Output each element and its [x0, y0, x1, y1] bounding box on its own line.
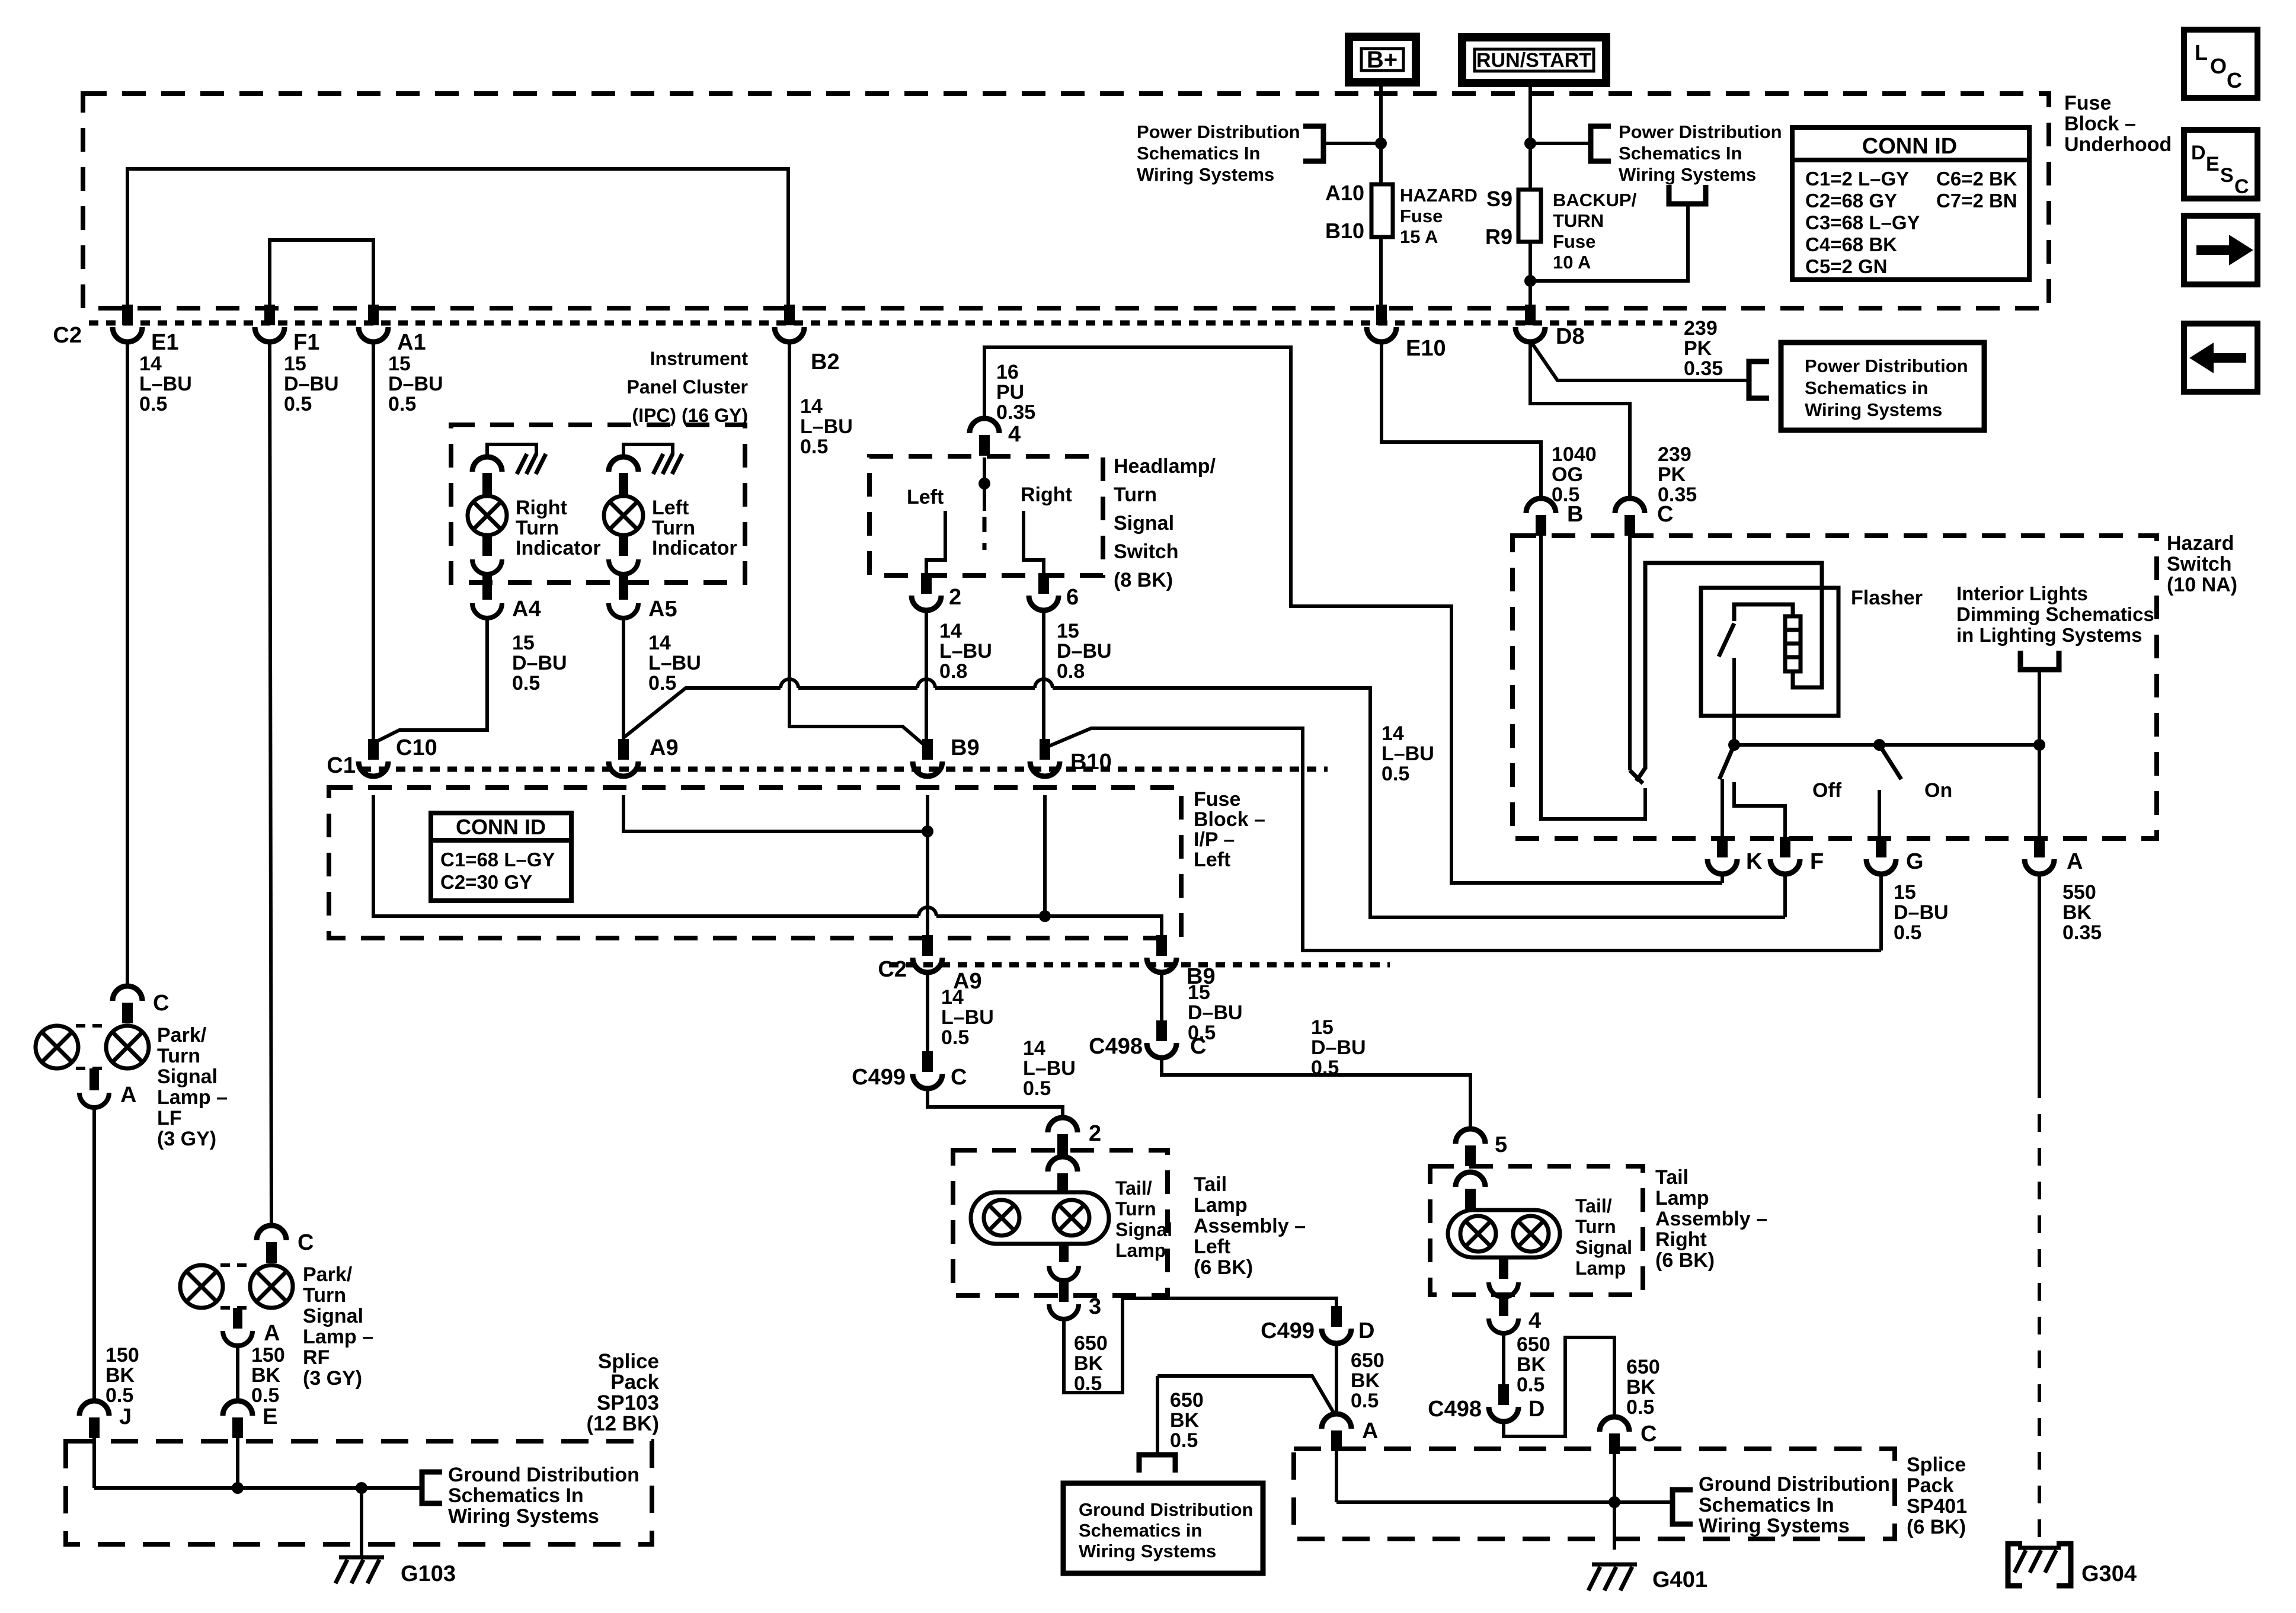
svg-text:Left: Left	[907, 486, 944, 508]
headlamp/turn signal switch dashed box	[869, 456, 1103, 575]
LOC box	[2184, 30, 2257, 98]
svg-text:Signal: Signal	[303, 1305, 363, 1327]
node headlamp switch pole	[983, 457, 986, 484]
svg-text:CONN ID: CONN ID	[456, 815, 546, 839]
svg-text:C1=68 L–GY: C1=68 L–GY	[440, 849, 555, 870]
svg-text:Block –: Block –	[1194, 808, 1265, 831]
right indicator lower connector	[482, 535, 492, 556]
wire B10 to G diagonal (15 D-BU)	[1045, 728, 1881, 950]
svg-text:150: 150	[105, 1344, 139, 1366]
svg-text:B10: B10	[1070, 750, 1112, 775]
wire E1 to B2 internal	[127, 169, 788, 305]
svg-text:Ground Distribution: Ground Distribution	[1699, 1473, 1890, 1496]
svg-text:BK: BK	[1074, 1352, 1104, 1375]
connector E10	[1376, 305, 1387, 325]
svg-text:Schematics in: Schematics in	[1805, 377, 1928, 398]
svg-text:C7=2 BN: C7=2 BN	[1936, 190, 2017, 212]
connector 2 headlamp switch	[921, 573, 932, 594]
svg-text:Schematics In: Schematics In	[1619, 143, 1742, 164]
svg-text:0.5: 0.5	[648, 672, 676, 695]
svg-text:Tail/: Tail/	[1575, 1195, 1612, 1217]
svg-text:C498: C498	[1428, 1397, 1482, 1422]
wire E10 to hazard switch B	[1382, 340, 1541, 500]
connector E1	[122, 305, 133, 325]
connector A5	[619, 575, 628, 600]
svg-text:Splice: Splice	[1907, 1454, 1966, 1476]
svg-text:D–BU: D–BU	[1894, 901, 1949, 924]
svg-text:C1: C1	[327, 753, 356, 778]
svg-text:L–BU: L–BU	[800, 415, 853, 438]
splice pack SP401 dashed box	[1294, 1449, 1895, 1539]
wire B9 bottom to C498	[1160, 971, 1163, 1023]
wire switch 6 to B10	[1042, 609, 1045, 742]
svg-text:(8 BK): (8 BK)	[1114, 569, 1173, 591]
wire C into SP401 to G401	[1613, 1454, 1616, 1550]
ground G304	[2018, 1546, 2061, 1550]
node flasher pole	[1728, 739, 1740, 751]
svg-text:Signal: Signal	[157, 1065, 218, 1088]
hazard blade to K	[1719, 745, 1734, 779]
Off contact wire to F	[1734, 782, 1785, 837]
wire C10 to lower B9 internal	[373, 795, 919, 916]
connector F	[1780, 837, 1790, 857]
svg-text:BK: BK	[105, 1364, 135, 1387]
svg-text:15: 15	[1311, 1016, 1334, 1039]
svg-text:PK: PK	[1684, 337, 1712, 360]
svg-text:Turn: Turn	[1114, 484, 1157, 506]
svg-text:BK: BK	[251, 1364, 281, 1387]
B+ feed box	[1349, 37, 1416, 82]
svg-text:A: A	[2067, 849, 2083, 874]
svg-text:0.35: 0.35	[996, 401, 1035, 424]
bracket under power distribution text	[1669, 185, 1706, 204]
svg-text:10 A: 10 A	[1553, 252, 1591, 273]
svg-text:Switch: Switch	[2167, 553, 2232, 575]
wire BACKUP fuse to connector D8	[1528, 242, 1532, 305]
svg-text:239: 239	[1684, 317, 1718, 340]
left turn indicator lamp	[609, 457, 638, 472]
svg-text:650: 650	[1351, 1349, 1384, 1372]
svg-text:C: C	[1190, 1034, 1206, 1059]
power distribution schematics box (solid)	[1781, 343, 1984, 430]
svg-text:550: 550	[2062, 881, 2096, 904]
svg-text:L–BU: L–BU	[648, 652, 701, 674]
svg-text:0.35: 0.35	[1684, 357, 1723, 380]
node G103 junction	[356, 1482, 367, 1494]
svg-text:S9: S9	[1486, 187, 1512, 211]
svg-text:0.8: 0.8	[939, 660, 967, 683]
svg-text:15: 15	[1057, 620, 1079, 642]
svg-text:B10: B10	[1325, 219, 1364, 243]
node SP401 junction	[1609, 1496, 1620, 1508]
svg-text:Tail: Tail	[1194, 1173, 1227, 1196]
svg-text:C2: C2	[878, 957, 907, 982]
svg-text:0.5: 0.5	[1311, 1057, 1339, 1079]
svg-text:BK: BK	[1517, 1353, 1546, 1376]
connector C499 D	[1331, 1306, 1342, 1327]
wire bracket down to RUN/START wire	[1530, 204, 1688, 281]
svg-text:C: C	[2227, 68, 2242, 92]
svg-text:RF: RF	[303, 1346, 330, 1369]
inner connector tail right bottom	[1499, 1257, 1508, 1279]
svg-text:D8: D8	[1556, 324, 1585, 349]
svg-text:0.5: 0.5	[1382, 763, 1409, 785]
svg-text:150: 150	[251, 1344, 285, 1366]
bracket to power distribution box	[1749, 361, 1769, 398]
svg-text:LF: LF	[157, 1107, 182, 1129]
svg-text:14: 14	[939, 620, 962, 642]
svg-text:15: 15	[1894, 881, 1916, 904]
svg-text:(IPC) (16 GY): (IPC) (16 GY)	[632, 405, 748, 426]
wire A4 to C10 diagonal	[373, 619, 487, 743]
svg-text:Right: Right	[1655, 1228, 1707, 1251]
node splice on RUN/START wire	[1524, 137, 1536, 149]
svg-text:Lamp: Lamp	[1575, 1257, 1626, 1279]
svg-text:Ground Distribution: Ground Distribution	[448, 1464, 639, 1486]
svg-text:L–BU: L–BU	[939, 640, 992, 663]
wire A9 bottom to C499	[926, 971, 929, 1054]
svg-text:C498: C498	[1089, 1034, 1143, 1059]
svg-text:L–BU: L–BU	[1023, 1057, 1076, 1080]
svg-text:2: 2	[949, 585, 961, 610]
wire HAZARD fuse to connector E10	[1379, 237, 1383, 305]
svg-text:A9: A9	[650, 735, 679, 760]
RUN/START feed box	[1462, 37, 1606, 83]
connector row C1 dotted line	[362, 767, 1328, 772]
svg-text:4: 4	[1008, 422, 1021, 447]
wire LF A down to J	[92, 1106, 96, 1403]
svg-text:(3 GY): (3 GY)	[303, 1367, 362, 1390]
svg-text:0.5: 0.5	[1023, 1077, 1051, 1100]
svg-text:Right: Right	[516, 497, 567, 519]
svg-text:0.5: 0.5	[105, 1384, 133, 1407]
svg-text:D: D	[1528, 1397, 1544, 1422]
svg-text:0.5: 0.5	[251, 1384, 279, 1407]
svg-text:I/P –: I/P –	[1194, 828, 1235, 851]
svg-text:Power Distribution: Power Distribution	[1805, 356, 1968, 376]
svg-text:BK: BK	[1170, 1409, 1200, 1432]
prev-page arrow box	[2184, 324, 2257, 392]
node junction B10 wire	[1039, 910, 1051, 922]
svg-text:Signal: Signal	[1575, 1237, 1632, 1258]
connector B10 top	[1040, 739, 1050, 760]
svg-text:OG: OG	[1552, 463, 1583, 486]
svg-text:Splice: Splice	[598, 1350, 659, 1373]
connector C LF	[122, 1003, 133, 1023]
wire B2 to B9 diagonal	[789, 340, 928, 748]
svg-text:Fuse: Fuse	[2064, 92, 2111, 114]
svg-text:650: 650	[1517, 1333, 1550, 1356]
svg-text:L–BU: L–BU	[941, 1006, 994, 1029]
svg-text:Park/: Park/	[157, 1024, 207, 1046]
fuse block I/P dashed box	[329, 788, 1181, 938]
connector B9 top	[922, 739, 933, 760]
inner connector tail right top	[1465, 1189, 1476, 1209]
connector A4	[482, 575, 492, 600]
svg-text:Fuse: Fuse	[1194, 788, 1240, 811]
svg-text:C2=68 GY: C2=68 GY	[1805, 190, 1897, 212]
connector C splice right	[1609, 1433, 1620, 1454]
node E junction	[232, 1482, 244, 1494]
connector row C2 dotted line	[89, 321, 1677, 326]
tail/turn bulb capsule right	[1448, 1210, 1560, 1257]
svg-text:(12 BK): (12 BK)	[586, 1412, 659, 1435]
svg-text:D–BU: D–BU	[1188, 1001, 1243, 1024]
wire to G103	[360, 1488, 363, 1556]
wire A into SP401	[1335, 1451, 1338, 1502]
wire C to blade	[1628, 536, 1632, 770]
connector C hazard	[1625, 515, 1635, 536]
connector E	[232, 1417, 243, 1438]
DESC box	[2184, 130, 2257, 199]
wire C499-D down to A	[1335, 1342, 1338, 1416]
svg-text:650: 650	[1626, 1356, 1660, 1378]
flasher coil	[1785, 616, 1801, 671]
svg-text:C499: C499	[1261, 1318, 1315, 1343]
connector K	[1717, 837, 1728, 857]
svg-text:A1: A1	[397, 330, 426, 355]
svg-text:F: F	[1810, 849, 1824, 874]
svg-text:C: C	[951, 1065, 967, 1090]
svg-text:B+: B+	[1367, 47, 1398, 73]
svg-text:Signal: Signal	[1115, 1219, 1172, 1240]
svg-text:Right: Right	[1021, 484, 1072, 506]
hop over switch2 wire	[917, 679, 935, 688]
svg-text:G401: G401	[1652, 1567, 1707, 1592]
svg-text:SP103: SP103	[597, 1391, 659, 1414]
wire E1 down to LF lamp	[126, 340, 129, 988]
svg-text:Pack: Pack	[1907, 1474, 1953, 1497]
svg-text:C1=2 L–GY: C1=2 L–GY	[1805, 168, 1909, 190]
svg-text:4: 4	[1528, 1308, 1541, 1333]
power distribution bracket right	[1591, 126, 1611, 161]
svg-text:C: C	[1657, 502, 1673, 527]
connector J	[89, 1417, 100, 1438]
svg-text:BACKUP/: BACKUP/	[1553, 190, 1637, 210]
svg-text:Power Distribution: Power Distribution	[1137, 121, 1300, 142]
hazard blade at C	[1630, 770, 1643, 783]
left indicator lower connector	[619, 535, 628, 556]
svg-text:B: B	[1567, 502, 1583, 527]
svg-text:K: K	[1746, 849, 1763, 874]
wire K contact down	[1721, 779, 1724, 837]
svg-text:B2: B2	[811, 350, 840, 375]
splice bus SP401	[1336, 1500, 1673, 1504]
svg-text:L–BU: L–BU	[1382, 743, 1434, 765]
svg-text:G103: G103	[401, 1561, 456, 1586]
On blade	[1879, 745, 1901, 779]
svg-text:Hazard: Hazard	[2167, 532, 2234, 555]
connector A1	[368, 305, 379, 325]
connector row C2/A9 dotted line	[889, 962, 1390, 968]
svg-text:15: 15	[1188, 981, 1210, 1004]
svg-text:Wiring Systems: Wiring Systems	[1137, 164, 1274, 185]
svg-text:A5: A5	[648, 597, 677, 622]
svg-text:J: J	[119, 1404, 132, 1429]
svg-text:14: 14	[648, 632, 671, 654]
bracket under interior lights	[2020, 651, 2059, 670]
svg-text:D–BU: D–BU	[1311, 1036, 1366, 1059]
connector A splice left	[1331, 1430, 1342, 1451]
svg-text:PK: PK	[1658, 463, 1686, 486]
wire C498-D to splice C	[1504, 1337, 1614, 1436]
svg-text:Assembly –: Assembly –	[1194, 1215, 1306, 1237]
svg-text:3: 3	[1089, 1294, 1101, 1319]
svg-text:D–BU: D–BU	[388, 373, 443, 395]
svg-text:Fuse: Fuse	[1400, 206, 1443, 226]
svg-text:Instrument: Instrument	[650, 348, 749, 369]
wire interior lights to A	[2038, 670, 2041, 837]
svg-text:G: G	[1906, 849, 1924, 874]
svg-text:On: On	[1924, 779, 1952, 802]
svg-text:C2: C2	[53, 323, 82, 348]
svg-text:Lamp: Lamp	[1115, 1240, 1166, 1261]
svg-text:L: L	[2195, 40, 2208, 65]
svg-text:BK: BK	[1351, 1369, 1380, 1392]
wire to power distribution left	[1323, 142, 1381, 145]
svg-text:0.5: 0.5	[284, 393, 312, 415]
svg-text:14: 14	[139, 353, 162, 375]
connector C10	[368, 739, 379, 760]
wire to power distribution right	[1530, 142, 1591, 145]
svg-text:0.5: 0.5	[1517, 1374, 1544, 1396]
wire E to splice bus	[236, 1438, 239, 1488]
ground G401	[1592, 1563, 1637, 1567]
connector 2 tail left	[1057, 1134, 1068, 1155]
wire K to headlamp pole net	[1721, 872, 1724, 883]
svg-text:Left: Left	[1194, 1236, 1230, 1258]
svg-text:Flasher: Flasher	[1851, 587, 1923, 609]
wire C498-C to tail lamp right pin5 (15 D-BU)	[1162, 1056, 1470, 1131]
ground G103	[339, 1556, 384, 1560]
node splice on B+ wire	[1375, 137, 1387, 149]
wire C499-C to tail lamp left pin2	[928, 1087, 1063, 1119]
svg-text:(6 BK): (6 BK)	[1907, 1516, 1966, 1538]
svg-text:D–BU: D–BU	[1057, 640, 1112, 663]
tail/turn bulb capsule left	[971, 1192, 1109, 1244]
svg-text:C4=68 BK: C4=68 BK	[1805, 233, 1897, 255]
wire F1 to A1 internal bridge	[270, 240, 373, 305]
connector C498 C	[1156, 1020, 1167, 1041]
svg-text:Wiring Systems: Wiring Systems	[1079, 1541, 1216, 1561]
svg-text:Off: Off	[1812, 779, 1842, 802]
flasher pole	[1732, 658, 1736, 745]
svg-text:14: 14	[1023, 1037, 1045, 1060]
svg-text:A: A	[1362, 1419, 1378, 1444]
wire A9 to hazard switch F (14 L-BU)	[623, 688, 781, 738]
svg-text:650: 650	[1074, 1332, 1108, 1355]
wire headlamp switch pin4 to hazard switch K	[984, 347, 1722, 883]
svg-text:E: E	[2206, 153, 2220, 175]
svg-text:15: 15	[388, 353, 411, 375]
svg-text:Headlamp/: Headlamp/	[1114, 455, 1216, 478]
svg-text:0.5: 0.5	[941, 1026, 969, 1049]
svg-text:15: 15	[512, 632, 535, 654]
connector G	[1876, 837, 1886, 857]
svg-text:G304: G304	[2081, 1561, 2137, 1586]
bracket above ground distribution box	[1139, 1455, 1175, 1473]
headlamp switch pole blade (dashed)	[983, 517, 987, 550]
svg-text:Schematics In: Schematics In	[1699, 1494, 1834, 1516]
svg-text:F1: F1	[293, 330, 319, 355]
bracket to ground distribution text right	[1673, 1490, 1693, 1524]
svg-text:Park/: Park/	[303, 1263, 353, 1286]
hazard switch dashed box	[1512, 536, 2157, 838]
On contact wire to G	[1878, 790, 1881, 837]
svg-text:Turn: Turn	[1115, 1198, 1156, 1220]
svg-text:TURN: TURN	[1553, 210, 1604, 231]
svg-text:Ground Distribution: Ground Distribution	[1079, 1499, 1253, 1520]
svg-text:D–BU: D–BU	[284, 373, 339, 395]
svg-text:Lamp –: Lamp –	[303, 1326, 373, 1348]
svg-text:Lamp: Lamp	[1194, 1194, 1248, 1217]
svg-text:Turn: Turn	[157, 1045, 200, 1067]
headlamp switch Right contact	[1024, 511, 1044, 574]
svg-text:C3=68 L–GY: C3=68 L–GY	[1805, 212, 1920, 233]
flasher outer box path	[1645, 563, 1822, 769]
connector B hazard	[1536, 515, 1546, 536]
right turn indicator ground wire	[487, 444, 536, 457]
node A wire	[2033, 739, 2045, 751]
svg-text:Tail/: Tail/	[1115, 1177, 1152, 1199]
svg-text:Turn: Turn	[1575, 1216, 1616, 1237]
svg-text:C: C	[2234, 175, 2249, 198]
svg-text:E: E	[263, 1404, 277, 1429]
connector B9 bottom	[1156, 935, 1167, 956]
svg-text:0.5: 0.5	[800, 436, 828, 458]
svg-text:Turn: Turn	[652, 517, 695, 539]
svg-text:C6=2 BK: C6=2 BK	[1936, 168, 2017, 190]
wire D8 to power distribution box	[1530, 341, 1749, 380]
svg-text:Left: Left	[1194, 849, 1230, 871]
wire D8 to hazard switch C	[1530, 340, 1630, 500]
connector A LF	[89, 1068, 99, 1090]
svg-text:C: C	[153, 991, 169, 1016]
wire A5 down to A9	[622, 619, 625, 739]
flasher B contact kink	[1636, 768, 1645, 781]
wire tail left 3 to C499-D	[1064, 1298, 1336, 1393]
svg-text:D: D	[2191, 142, 2206, 164]
splice bus SP103	[94, 1486, 422, 1490]
hop over switch6 wire	[1035, 679, 1053, 688]
wire F1 down to RF lamp	[270, 340, 271, 1227]
svg-text:Schematics In: Schematics In	[448, 1484, 584, 1507]
ground distribution schematics box (solid, center)	[1063, 1483, 1263, 1573]
svg-text:Turn: Turn	[303, 1284, 346, 1307]
connector A hazard	[2034, 837, 2045, 857]
connector A9 top	[618, 739, 629, 760]
LF lamp dual bulb capsule	[36, 1026, 78, 1068]
node on contact	[1873, 739, 1885, 751]
svg-text:BK: BK	[2062, 901, 2092, 924]
svg-text:D: D	[1358, 1318, 1374, 1343]
wire A1 down to C10	[372, 340, 375, 739]
wire A9 tee to B9 internal	[623, 795, 928, 831]
svg-text:0.5: 0.5	[512, 672, 540, 695]
wire F down	[1783, 872, 1787, 917]
flasher inner box	[1701, 588, 1838, 716]
RF lamp dual bulb capsule	[180, 1265, 223, 1308]
hop over B2 wire	[781, 679, 798, 688]
right turn indicator lamp	[472, 457, 502, 472]
svg-text:Left: Left	[652, 497, 689, 519]
svg-text:Underhood: Underhood	[2064, 133, 2172, 156]
svg-text:Lamp: Lamp	[1655, 1187, 1709, 1209]
svg-text:Wiring Systems: Wiring Systems	[1619, 164, 1756, 185]
svg-text:0.8: 0.8	[1057, 660, 1085, 683]
svg-text:15: 15	[284, 353, 306, 375]
wire RUN/START to BACKUP/TURN fuse	[1528, 83, 1532, 190]
